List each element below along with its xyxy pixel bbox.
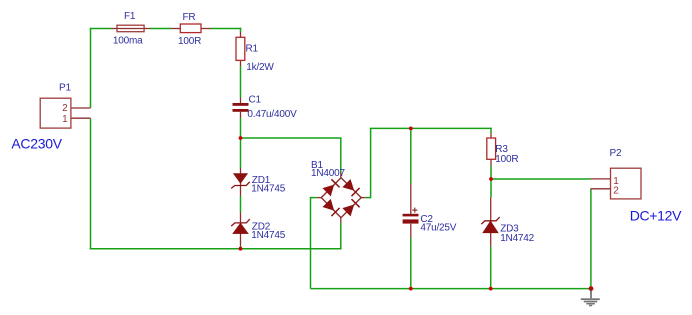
resistor R1 [236,32,245,66]
node: ZD2-neutral junction [239,247,243,251]
svg-text:2: 2 [613,186,619,197]
wire: node to bridge top [241,137,342,139]
wire: bridge plus (right) up and to R3 [366,197,371,199]
resistor R3 [487,134,496,167]
svg-text:1: 1 [62,114,68,125]
svg-text:FR: FR [183,12,196,23]
zener diode ZD1 [231,168,250,196]
svg-text:100R: 100R [495,154,518,165]
wire: ZD1 cathode to ZD2 cathode [240,196,242,213]
wire: ZD3 anode to ground rail [490,247,492,289]
svg-text:100ma: 100ma [113,36,143,47]
ground symbol [581,289,600,307]
wire: F1 to FR [150,28,171,30]
svg-text:1k/2W: 1k/2W [246,62,274,73]
node: C1-bridge-ZD1 junction [239,136,243,140]
svg-text:1N4742: 1N4742 [500,233,534,244]
svg-text:1N4745: 1N4745 [251,230,285,241]
wire: P2 pin2 down to ground [590,189,592,289]
svg-text:0.47u/400V: 0.47u/400V [247,109,297,120]
svg-text:1N4745: 1N4745 [251,183,285,194]
svg-text:C1: C1 [249,94,262,105]
wire: node down to ZD1 [240,138,242,168]
connector P1 [40,98,90,128]
wire: FR to R1 corner [211,28,242,30]
node: +12V junction [489,177,493,181]
node: ZD3 bottom junction [489,287,493,291]
capacitor C1 [233,98,249,119]
bridge rectifier B1 [317,173,366,224]
wire: P1 pin1 down to neutral rail [90,118,92,249]
capacitor C2 (polarized) [403,184,419,239]
node: C2 top junction [409,126,413,130]
connector P2 [591,168,642,199]
wire: top rail from P1 up-corner to F1 [90,28,111,30]
node: ground junction [589,286,594,291]
resistor FR [171,24,211,33]
wire: R3 to +12V node [490,166,492,179]
node: C2 bottom junction [409,287,413,291]
fuse F1 [111,25,150,32]
zener diode ZD3 [481,198,499,247]
svg-text:P2: P2 [610,148,622,159]
wire: bridge bottom stub to neutral rail [340,223,342,249]
wire: C1 to junction node [240,118,242,138]
wire: +12V node down to ZD3 [490,179,492,198]
svg-text:AC230V: AC230V [11,135,62,151]
svg-text:2: 2 [62,103,68,114]
wire: neutral rail to bridge bottom [90,248,342,250]
svg-text:F1: F1 [124,11,136,22]
wire: ZD2 anode to neutral rail [240,246,242,249]
wire: C2 top [410,128,412,183]
wire: ground rail [311,288,592,290]
svg-text:47u/25V: 47u/25V [420,223,456,234]
svg-text:R1: R1 [246,43,259,54]
wire: +12V node to P2 pin1 [491,178,591,180]
svg-text:P1: P1 [59,83,71,94]
svg-text:DC+12V: DC+12V [630,208,682,224]
wire: C2 bottom to ground rail [410,238,412,289]
wire: bridge minus (left) down to ground rail [311,197,317,199]
zener diode ZD2 [231,213,250,247]
svg-text:1N4007: 1N4007 [311,168,345,179]
svg-text:100R: 100R [178,36,201,47]
wire: R1 to C1 [240,66,242,98]
